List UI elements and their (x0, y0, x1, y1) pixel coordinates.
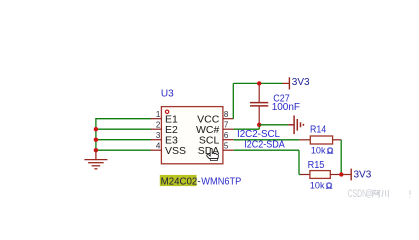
svg-text:10k: 10k (311, 145, 326, 156)
wire VCC top rail (233, 82, 282, 84)
svg-text:R15: R15 (308, 160, 325, 171)
pin 3 stub (151, 139, 162, 141)
power 3V3 bottom stub (341, 174, 351, 176)
power 3V3 top stub (283, 82, 290, 84)
pin 6 stub (223, 139, 234, 141)
svg-text:4: 4 (156, 142, 161, 151)
wire SDA vertical (298, 150, 300, 174)
svg-text:I2C2-SDA: I2C2-SDA (244, 140, 285, 151)
svg-text:Ω: Ω (326, 180, 333, 190)
svg-text:8: 8 (224, 110, 229, 119)
svg-text:3: 3 (156, 131, 161, 140)
pin 4 stub (151, 149, 162, 151)
resistor R14 lead left (299, 139, 310, 141)
svg-text:2: 2 (156, 121, 161, 130)
node junction WC#-C27-gnd (257, 123, 261, 127)
wire R14 to R15 vertical (340, 140, 342, 175)
svg-text:5: 5 (224, 142, 229, 151)
resistor R14 lead right (333, 139, 342, 141)
wire left vertical bus (95, 118, 97, 150)
power 3V3 top bar (288, 77, 290, 89)
wire gnd line (259, 124, 288, 126)
svg-text:1: 1 (156, 110, 161, 119)
wire pin3 (95, 139, 151, 141)
wire WC# vertical jog (258, 125, 260, 129)
wire SCL (234, 139, 300, 141)
svg-text:3V3: 3V3 (292, 77, 310, 88)
svg-text:U3: U3 (161, 89, 174, 100)
op IC U3 body (161, 107, 223, 164)
node junction R14-R15-3V3 (339, 172, 343, 176)
svg-text:3V3: 3V3 (354, 170, 372, 181)
wire WC# to gnd node (234, 128, 260, 130)
pin 5 stub (223, 149, 234, 151)
pin 1 stub (151, 118, 162, 120)
pin 8 stub (223, 118, 234, 120)
wire SDA elbow (299, 174, 301, 176)
svg-text:6: 6 (224, 131, 229, 140)
node junction bus-pin4 (94, 148, 98, 152)
resistor R15 body (310, 171, 330, 179)
svg-text:Ω: Ω (327, 145, 334, 155)
resistor R15 lead left (301, 174, 310, 176)
pin 7 stub (223, 128, 234, 130)
wire pin4 (95, 149, 151, 151)
svg-text:I2C2-SCL: I2C2-SCL (237, 129, 280, 140)
wire pin1 bus horizontal (95, 118, 151, 120)
power 3V3 bottom bar (350, 169, 352, 181)
wire pin2 (95, 128, 151, 130)
capacitor C27 (250, 83, 268, 124)
ground GND left (84, 150, 107, 169)
wire VCC vertical (232, 83, 234, 118)
wire SDA (234, 149, 299, 151)
svg-text:@: @ (366, 189, 372, 200)
node junction VCC-C27 (257, 81, 261, 85)
svg-text:VSS: VSS (165, 145, 186, 157)
ground GND right (rotated) (288, 116, 303, 135)
resistor R15 lead right (330, 174, 341, 176)
svg-text:CSDN: CSDN (348, 188, 368, 200)
cursor hand pointer (207, 148, 219, 160)
svg-text:WMN6TP: WMN6TP (201, 176, 241, 187)
pin 2 stub (151, 128, 162, 130)
svg-text:7: 7 (224, 121, 229, 130)
svg-text:10k: 10k (310, 180, 325, 191)
node designator dot (165, 110, 168, 113)
label M24C02 highlight (160, 175, 197, 186)
resistor R14 body (310, 136, 332, 144)
svg-text:M24C02-: M24C02- (161, 176, 201, 187)
svg-text:100nF: 100nF (272, 102, 300, 113)
svg-text:R14: R14 (310, 124, 327, 135)
node junction bus-pin3 (94, 138, 98, 142)
node junction bus-pin2 (94, 127, 98, 131)
